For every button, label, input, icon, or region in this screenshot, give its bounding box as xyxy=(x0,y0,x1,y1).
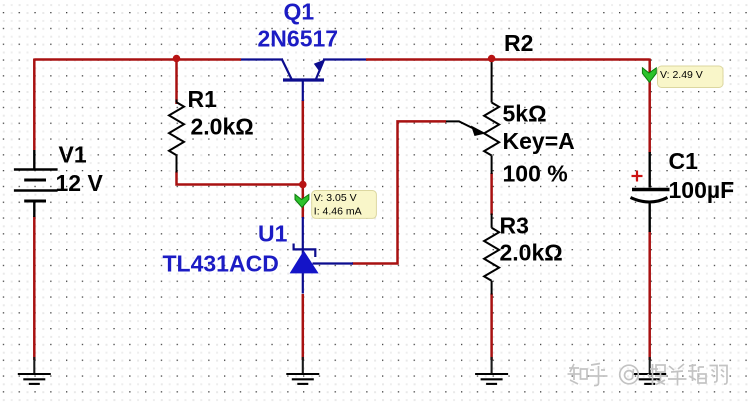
probe arrow node base xyxy=(295,194,309,207)
ground (battery) xyxy=(18,357,51,384)
resistor R1 xyxy=(169,100,184,173)
wire top horizontal from battery to transistor xyxy=(34,58,241,61)
wire R1 top vertical xyxy=(175,59,178,105)
svg-text:Key=A: Key=A xyxy=(503,128,575,154)
wire R1 bottom to node xyxy=(177,172,304,185)
wire U1 anode down to ground xyxy=(302,294,305,360)
乎 xyxy=(589,364,608,386)
wire C1 bottom to ground xyxy=(648,231,651,360)
transistor Q1 xyxy=(241,59,366,102)
probe arrow node output xyxy=(642,68,656,83)
svg-text:V: 3.05 V: V: 3.05 V xyxy=(314,192,357,204)
probe box V: 3.05 V / I: 4.46 mA xyxy=(312,191,377,219)
watermark 知乎 @樱华稻羽 xyxy=(568,364,728,386)
svg-text:2N6517: 2N6517 xyxy=(258,26,339,52)
羽 xyxy=(710,366,728,385)
wire battery minus down to ground xyxy=(33,216,36,360)
svg-text:2.0kΩ: 2.0kΩ xyxy=(191,114,254,140)
svg-text:U1: U1 xyxy=(258,221,288,247)
wire pot bottom to R3 top xyxy=(490,173,493,215)
稻 xyxy=(688,364,706,383)
svg-text:R1: R1 xyxy=(188,86,218,112)
樱 xyxy=(648,364,666,385)
svg-text:5kΩ: 5kΩ xyxy=(503,101,547,127)
capacitor C1 xyxy=(631,152,670,232)
junction node R1 top xyxy=(173,55,181,63)
svg-text:100 %: 100 % xyxy=(503,161,568,187)
wire C1 column vertical xyxy=(648,59,651,154)
shunt regulator U1 TL431 xyxy=(294,217,353,294)
svg-text:2.0kΩ: 2.0kΩ xyxy=(500,240,563,266)
pot wiper arrow xyxy=(446,121,486,136)
知 xyxy=(568,364,588,384)
svg-text:V1: V1 xyxy=(59,142,87,168)
svg-text:12 V: 12 V xyxy=(56,170,104,196)
junction node R1 bottom / base xyxy=(299,181,307,189)
svg-text:Q1: Q1 xyxy=(284,0,315,25)
junction node R2 top xyxy=(488,55,496,63)
U1 triangle xyxy=(291,252,318,273)
plus sign C1 xyxy=(632,171,643,182)
Q1 emitter arrow xyxy=(314,59,325,72)
wire base column down to U1 xyxy=(302,100,305,218)
probe box V: 2.49 V xyxy=(658,66,724,88)
svg-text:V: 2.49 V: V: 2.49 V xyxy=(660,69,703,81)
wire transistor right to C1 top xyxy=(366,58,650,61)
svg-text:100µF: 100µF xyxy=(669,177,735,203)
potentiometer 5kΩ xyxy=(484,62,499,174)
resistor R3 xyxy=(484,214,499,295)
ground (C1) xyxy=(633,357,666,384)
华 xyxy=(668,364,687,386)
battery V1 xyxy=(14,150,58,217)
wire REF to pot wiper xyxy=(352,121,446,263)
svg-text:TL431ACD: TL431ACD xyxy=(163,251,279,277)
ground (R3) xyxy=(475,357,508,384)
svg-text:R2: R2 xyxy=(504,30,533,56)
svg-text:C1: C1 xyxy=(669,148,699,174)
svg-text:R3: R3 xyxy=(500,213,529,239)
svg-text:I: 4.46 mA: I: 4.46 mA xyxy=(314,206,362,218)
ground (U1) xyxy=(286,357,319,384)
wire battery left vertical xyxy=(33,59,36,151)
@ xyxy=(620,365,639,384)
wire R3 bottom to ground xyxy=(490,294,493,361)
